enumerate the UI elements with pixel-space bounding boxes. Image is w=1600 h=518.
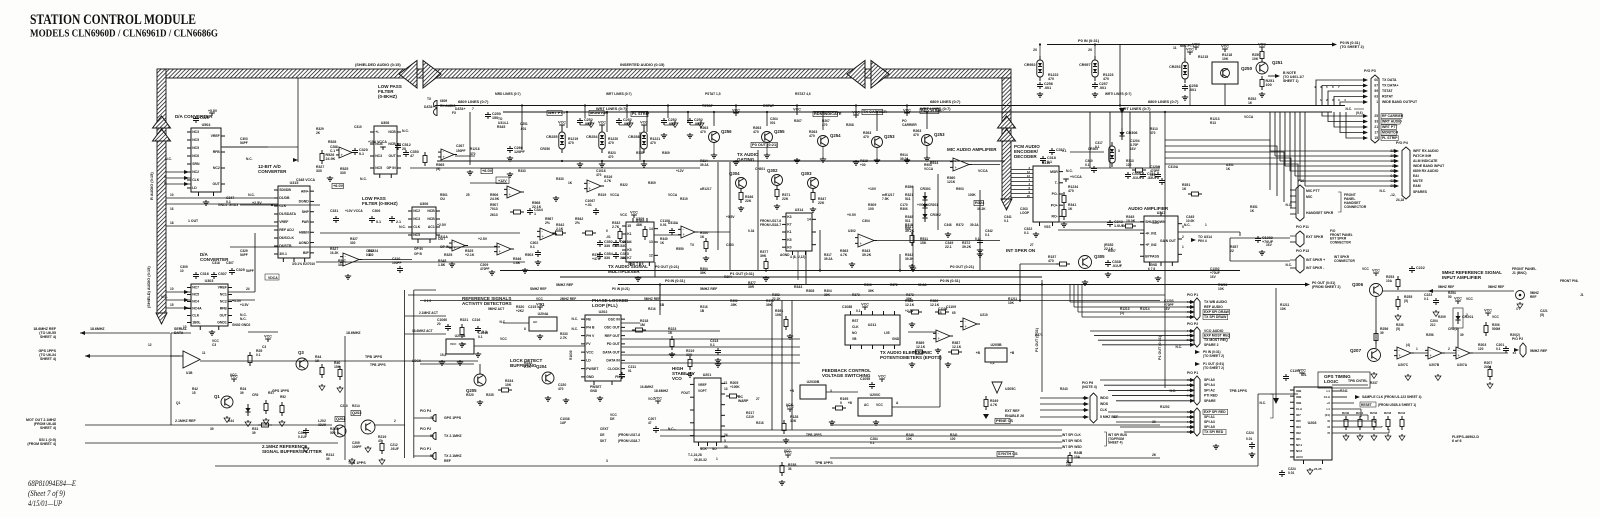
svg-text:ACTIVITY DETECTORS: ACTIVITY DETECTORS bbox=[462, 301, 512, 306]
svg-text:R903: R903 bbox=[956, 187, 964, 191]
svg-text:.001: .001 bbox=[520, 127, 526, 131]
svg-text:5MHZ REF: 5MHZ REF bbox=[556, 283, 573, 287]
svg-text:43: 43 bbox=[1187, 383, 1191, 387]
svg-text:SHEET 4): SHEET 4) bbox=[40, 335, 56, 339]
svg-text:SPI A2: SPI A2 bbox=[1204, 388, 1215, 392]
svg-text:470: 470 bbox=[1048, 77, 1054, 81]
svg-text:1K: 1K bbox=[1226, 167, 1231, 171]
svg-text:N.C.: N.C. bbox=[1184, 223, 1191, 227]
svg-text:SIGNAL BUFFER/SPLITTER: SIGNAL BUFFER/SPLITTER bbox=[262, 449, 323, 454]
svg-text:U208: U208 bbox=[1308, 421, 1317, 425]
svg-text:U200C: U200C bbox=[870, 393, 881, 397]
svg-text:44: 44 bbox=[1187, 420, 1191, 424]
svg-text:IOB: IOB bbox=[1296, 401, 1302, 405]
svg-text:R319: R319 bbox=[680, 197, 688, 201]
svg-text:Q202: Q202 bbox=[336, 416, 345, 421]
svg-text:42: 42 bbox=[1083, 408, 1087, 412]
svg-text:NCB: NCB bbox=[427, 209, 435, 213]
svg-text:10K: 10K bbox=[1280, 307, 1287, 311]
svg-text:39: 39 bbox=[1380, 331, 1384, 335]
svg-text:0.1: 0.1 bbox=[985, 233, 990, 237]
svg-text:3/0.1% E2/7010: 3/0.1% E2/7010 bbox=[292, 262, 315, 266]
svg-text:VCC: VCC bbox=[536, 297, 543, 301]
svg-text:16V: 16V bbox=[1210, 275, 1217, 279]
svg-text:DATA OUT: DATA OUT bbox=[603, 350, 621, 354]
svg-text:18.6MHZ ACT: 18.6MHZ ACT bbox=[412, 329, 433, 333]
svg-text:1K: 1K bbox=[660, 241, 665, 245]
svg-text:WRTI LINES (0:7): WRTI LINES (0:7) bbox=[1105, 92, 1131, 96]
svg-text:OU: OU bbox=[440, 197, 446, 201]
svg-text:66: 66 bbox=[1374, 78, 1378, 82]
svg-text:39.2A: 39.2A bbox=[918, 283, 927, 287]
svg-text:RSTAT 4,6: RSTAT 4,6 bbox=[795, 92, 811, 96]
svg-text:0.1: 0.1 bbox=[870, 441, 875, 445]
svg-text:IO5: IO5 bbox=[1296, 419, 1301, 423]
svg-text:39K: 39K bbox=[766, 303, 773, 307]
svg-text:NO: NO bbox=[852, 331, 857, 335]
svg-text:VCC: VCC bbox=[784, 451, 792, 455]
svg-text:(FROM U317-8: (FROM U317-8 bbox=[618, 433, 640, 437]
svg-text:2.7K: 2.7K bbox=[612, 225, 620, 229]
svg-text:(Sheet 7 of 9): (Sheet 7 of 9) bbox=[28, 489, 65, 498]
svg-text:39: 39 bbox=[1187, 305, 1191, 309]
svg-text:U202: U202 bbox=[599, 310, 608, 314]
svg-text:12.1K: 12.1K bbox=[905, 303, 915, 307]
svg-text:CR253: CR253 bbox=[1169, 65, 1180, 69]
svg-text:P/O P3: P/O P3 bbox=[1364, 69, 1376, 73]
svg-text:R319: R319 bbox=[598, 193, 606, 197]
svg-text:17: 17 bbox=[1374, 131, 1378, 135]
svg-text:BYPASS: BYPASS bbox=[1145, 254, 1160, 258]
svg-text:330: 330 bbox=[338, 263, 344, 267]
svg-text:U309: U309 bbox=[636, 217, 645, 221]
svg-text:NC2: NC2 bbox=[1296, 449, 1302, 453]
svg-text:C.1: C.1 bbox=[330, 149, 335, 153]
svg-text:P/O P1: P/O P1 bbox=[420, 447, 431, 451]
svg-text:0.1: 0.1 bbox=[1062, 149, 1067, 153]
svg-text:ACO: ACO bbox=[1296, 455, 1303, 459]
svg-text:R235: R235 bbox=[486, 393, 494, 397]
svg-text:(5): (5) bbox=[1396, 327, 1400, 331]
svg-text:VCC: VCC bbox=[1362, 267, 1369, 271]
svg-text:43: 43 bbox=[1187, 415, 1191, 419]
svg-text:24.9K: 24.9K bbox=[326, 157, 336, 161]
svg-text:SHEET 4): SHEET 4) bbox=[40, 357, 56, 361]
svg-text:CEXT: CEXT bbox=[600, 427, 609, 431]
svg-text:1.8K: 1.8K bbox=[438, 263, 446, 267]
svg-text:RST: RST bbox=[852, 319, 858, 323]
svg-text:PIN 4: PIN 4 bbox=[1198, 239, 1207, 243]
svg-text:NC4A: NC4A bbox=[192, 307, 202, 311]
svg-text:R1202: R1202 bbox=[1160, 405, 1170, 409]
svg-text:330: 330 bbox=[604, 244, 610, 248]
svg-text:4 (8, U,12): 4 (8, U,12) bbox=[790, 255, 805, 259]
svg-text:5: 5 bbox=[164, 175, 166, 179]
svg-text:Q256: Q256 bbox=[721, 129, 732, 134]
svg-text:REF: REF bbox=[1530, 295, 1536, 299]
svg-text:CARRIER: CARRIER bbox=[902, 123, 917, 127]
svg-text:VCC: VCC bbox=[640, 121, 648, 125]
svg-text:PO+: PO+ bbox=[1051, 203, 1058, 207]
svg-text:U210: U210 bbox=[980, 313, 988, 317]
svg-text:R216: R216 bbox=[756, 421, 764, 425]
svg-text:P0 IN (0:21): P0 IN (0:21) bbox=[612, 287, 630, 291]
svg-text:(FROM SHEET 4): (FROM SHEET 4) bbox=[27, 442, 56, 446]
svg-text:IOB: IOB bbox=[1296, 395, 1302, 399]
svg-text:TPB 1PPS: TPB 1PPS bbox=[815, 461, 833, 465]
svg-text:10K: 10K bbox=[1222, 57, 1229, 61]
svg-text:1UF: 1UF bbox=[560, 421, 566, 425]
svg-text:VCC: VCC bbox=[1484, 309, 1492, 313]
svg-text:VCO: VCO bbox=[672, 376, 682, 381]
svg-text:-01: -01 bbox=[606, 235, 611, 239]
svg-text:(TO SHEET 2): (TO SHEET 2) bbox=[1203, 366, 1224, 370]
svg-text:Q254: Q254 bbox=[830, 133, 841, 138]
svg-text:10.0K: 10.0K bbox=[1126, 219, 1136, 223]
svg-text:NC2: NC2 bbox=[413, 209, 420, 213]
svg-text:NC3: NC3 bbox=[375, 154, 382, 158]
svg-text:VREF: VREF bbox=[218, 286, 227, 290]
svg-text:PAR: PAR bbox=[302, 220, 310, 224]
svg-text:VCC: VCC bbox=[654, 397, 662, 401]
svg-text:R369: R369 bbox=[662, 151, 670, 155]
svg-text:SPARES: SPARES bbox=[1413, 190, 1428, 194]
svg-text:HANDSET SPKR: HANDSET SPKR bbox=[1306, 211, 1334, 215]
svg-text:P/O P1: P/O P1 bbox=[1187, 371, 1198, 375]
svg-text:L05: L05 bbox=[884, 331, 890, 335]
svg-text:1: 1 bbox=[1182, 245, 1184, 249]
svg-text:NC5: NC5 bbox=[413, 233, 420, 237]
svg-text:C304: C304 bbox=[862, 219, 870, 223]
svg-text:(1): (1) bbox=[1120, 311, 1124, 315]
svg-text:54PF: 54PF bbox=[240, 141, 248, 145]
svg-text:BIP: BIP bbox=[303, 251, 309, 255]
svg-text:500M: 500M bbox=[1492, 327, 1500, 331]
svg-text:39K: 39K bbox=[700, 271, 707, 275]
svg-text:GATING: GATING bbox=[737, 157, 755, 162]
svg-text:U317: U317 bbox=[1157, 211, 1166, 215]
svg-text:DATA+: DATA+ bbox=[455, 107, 466, 111]
svg-text:26: 26 bbox=[1152, 453, 1156, 457]
svg-text:2.1MHZ REF: 2.1MHZ REF bbox=[175, 419, 197, 423]
svg-text:39.2K: 39.2K bbox=[862, 253, 872, 257]
svg-text:(4): (4) bbox=[1406, 343, 1410, 347]
svg-text:EXP SPI RED: EXP SPI RED bbox=[1204, 410, 1226, 414]
svg-text:MULTIPLEXER: MULTIPLEXER bbox=[608, 269, 640, 274]
svg-text:AGND: AGND bbox=[780, 253, 790, 257]
svg-text:INT SPKR +: INT SPKR + bbox=[1306, 258, 1325, 262]
svg-text:470: 470 bbox=[1103, 77, 1109, 81]
svg-text:NC5: NC5 bbox=[375, 166, 382, 170]
svg-text:R373: R373 bbox=[852, 293, 860, 297]
svg-text:C318: C318 bbox=[212, 261, 220, 265]
svg-text:R1218: R1218 bbox=[470, 147, 480, 151]
svg-text:330: 330 bbox=[620, 244, 626, 248]
svg-text:PD OUT: PD OUT bbox=[607, 342, 621, 346]
svg-text:WRT PTT: WRT PTT bbox=[548, 110, 566, 115]
svg-text:C303: C303 bbox=[726, 243, 734, 247]
svg-text:2MHZ REF: 2MHZ REF bbox=[560, 297, 576, 301]
svg-text:10K: 10K bbox=[906, 437, 913, 441]
svg-text:TPB 1PPS: TPB 1PPS bbox=[370, 363, 386, 367]
svg-text:(FROM U318-7: (FROM U318-7 bbox=[618, 439, 640, 443]
svg-text:K7: K7 bbox=[787, 223, 791, 227]
svg-text:39K: 39K bbox=[824, 293, 831, 297]
svg-text:10K: 10K bbox=[790, 419, 797, 423]
svg-text:+2.5V: +2.5V bbox=[478, 237, 488, 241]
svg-text:VCC: VCC bbox=[620, 213, 628, 217]
svg-text:U306: U306 bbox=[420, 202, 429, 206]
svg-text:R237: R237 bbox=[1370, 381, 1378, 385]
svg-text:68P81094E84—E: 68P81094E84—E bbox=[28, 479, 76, 488]
svg-text:2.1K: 2.1K bbox=[556, 227, 564, 231]
svg-text:R333: R333 bbox=[518, 169, 526, 173]
svg-text:SO: SO bbox=[712, 447, 717, 451]
svg-text:C515: C515 bbox=[200, 116, 209, 120]
svg-text:0.01: 0.01 bbox=[1288, 471, 1294, 475]
svg-text:0.1: 0.1 bbox=[359, 152, 364, 156]
svg-text:3/0.1: 3/0.1 bbox=[279, 252, 287, 256]
svg-text:150: 150 bbox=[492, 116, 498, 120]
svg-text:470: 470 bbox=[558, 387, 564, 391]
svg-text:OSC IN: OSC IN bbox=[608, 317, 620, 321]
svg-text:C1088: C1088 bbox=[842, 305, 852, 309]
svg-text:1B0L: 1B0L bbox=[192, 321, 200, 325]
svg-text:SPI A1: SPI A1 bbox=[1204, 415, 1215, 419]
svg-text:36: 36 bbox=[788, 467, 792, 471]
svg-text:EXP SPI DRAW: EXP SPI DRAW bbox=[1204, 310, 1230, 314]
svg-text:VCC: VCC bbox=[450, 342, 457, 346]
svg-text:16: 16 bbox=[170, 207, 174, 211]
svg-text:511: 511 bbox=[905, 197, 911, 201]
svg-text:VCC: VCC bbox=[586, 350, 594, 354]
svg-text:U303: U303 bbox=[205, 279, 214, 283]
svg-text:64: 64 bbox=[1513, 351, 1517, 355]
svg-text:VCC: VCC bbox=[1454, 297, 1462, 301]
svg-text:C310A: C310A bbox=[1168, 165, 1179, 169]
svg-text:CR957: CR957 bbox=[1079, 63, 1090, 67]
svg-text:R345: R345 bbox=[497, 125, 505, 129]
svg-text:470: 470 bbox=[913, 133, 919, 137]
svg-text:0.1: 0.1 bbox=[376, 220, 381, 224]
svg-text:7: 7 bbox=[472, 107, 474, 111]
svg-text:C346: C346 bbox=[944, 223, 952, 227]
svg-text:64: 64 bbox=[1390, 174, 1394, 178]
svg-text:1M: 1M bbox=[640, 323, 645, 327]
svg-text:I0: I0 bbox=[1327, 419, 1330, 423]
svg-text:SPI A4: SPI A4 bbox=[1204, 383, 1215, 387]
svg-text:10: 10 bbox=[180, 269, 184, 273]
svg-text:TX SPI RED: TX SPI RED bbox=[1204, 430, 1224, 434]
svg-text:RF CARRIER: RF CARRIER bbox=[1382, 114, 1404, 118]
svg-text:WDO: WDO bbox=[1100, 396, 1109, 400]
svg-text:25: 25 bbox=[1374, 114, 1378, 118]
svg-text:22J: 22J bbox=[1430, 323, 1436, 327]
svg-text:SYNTH CS: SYNTH CS bbox=[998, 451, 1018, 456]
svg-text:IO2: IO2 bbox=[1296, 431, 1301, 435]
svg-text:1: 1 bbox=[1376, 100, 1378, 104]
svg-text:MSR: MSR bbox=[1050, 170, 1058, 174]
svg-text:11: 11 bbox=[202, 351, 206, 355]
svg-text:R52: R52 bbox=[280, 395, 286, 399]
svg-text:VCC: VCC bbox=[1372, 269, 1380, 273]
svg-text:VCCA: VCCA bbox=[668, 193, 678, 197]
svg-text:3: 3 bbox=[606, 459, 608, 463]
svg-text:V306: V306 bbox=[612, 244, 620, 248]
svg-text:+2: +2 bbox=[1327, 401, 1331, 405]
svg-text:0: 0 bbox=[840, 401, 842, 405]
svg-text:C224: C224 bbox=[1246, 431, 1254, 435]
svg-text:1K: 1K bbox=[1068, 207, 1073, 211]
svg-text:0.1: 0.1 bbox=[366, 253, 371, 257]
svg-text:01: 01 bbox=[628, 369, 632, 373]
svg-text:(5): (5) bbox=[1404, 299, 1408, 303]
svg-text:C216: C216 bbox=[472, 318, 480, 322]
svg-text:(FROM U51B-6 SHEET 1): (FROM U51B-6 SHEET 1) bbox=[1378, 403, 1416, 407]
svg-text:6 of 6: 6 of 6 bbox=[1452, 439, 1462, 443]
svg-text:.001: .001 bbox=[1044, 86, 1051, 90]
svg-text:D6/STB: D6/STB bbox=[279, 244, 292, 248]
svg-text:EXP MOST REQ: EXP MOST REQ bbox=[1204, 334, 1231, 338]
svg-text:39K: 39K bbox=[760, 254, 767, 258]
svg-text:(NOTE 4): (NOTE 4) bbox=[1082, 385, 1097, 389]
svg-text:LOGIC: LOGIC bbox=[1324, 379, 1339, 384]
svg-text:15: 15 bbox=[170, 303, 174, 307]
svg-text:121K: 121K bbox=[947, 180, 956, 184]
svg-text:(TO SHEET 2): (TO SHEET 2) bbox=[1340, 45, 1364, 49]
svg-text:12.1K: 12.1K bbox=[916, 345, 926, 349]
svg-text:TX WB AUDIO: TX WB AUDIO bbox=[1204, 300, 1227, 304]
svg-text:P/O P4: P/O P4 bbox=[1396, 141, 1409, 145]
svg-text:22K: 22K bbox=[745, 199, 752, 203]
svg-text:Q306: Q306 bbox=[1352, 282, 1364, 287]
svg-text:39: 39 bbox=[252, 431, 256, 435]
svg-text:U1B: U1B bbox=[186, 371, 193, 375]
svg-text:+30: +30 bbox=[860, 163, 866, 167]
svg-text:C215: C215 bbox=[528, 305, 536, 309]
svg-text:+10V VCCA: +10V VCCA bbox=[345, 209, 363, 213]
svg-text:PWSET: PWSET bbox=[586, 367, 599, 371]
svg-text:K1: K1 bbox=[787, 230, 791, 234]
svg-text:P1 OUT (0:31): P1 OUT (0:31) bbox=[1158, 335, 1162, 360]
svg-text:PATCH INH: PATCH INH bbox=[1413, 154, 1432, 158]
svg-text:CH301: CH301 bbox=[755, 167, 765, 171]
svg-text:RFB: RFB bbox=[220, 307, 228, 311]
svg-text:MIC AUDIO AMPLIFIER: MIC AUDIO AMPLIFIER bbox=[947, 147, 997, 152]
svg-text:ENABLE 26: ENABLE 26 bbox=[1005, 414, 1024, 418]
svg-text:N.C.: N.C. bbox=[240, 317, 247, 321]
svg-text:47: 47 bbox=[648, 421, 652, 425]
svg-text:R333: R333 bbox=[556, 177, 564, 181]
svg-text:RSTAT: RSTAT bbox=[1382, 95, 1394, 99]
svg-text:PL STRIP: PL STRIP bbox=[1382, 136, 1398, 140]
svg-text:+6.0V: +6.0V bbox=[482, 168, 493, 173]
svg-text:C331: C331 bbox=[330, 209, 338, 213]
svg-text:R242: R242 bbox=[1370, 411, 1378, 415]
svg-text:MIC PTT: MIC PTT bbox=[1306, 189, 1321, 193]
svg-text:14: 14 bbox=[807, 218, 811, 222]
svg-text:+F_IN2: +F_IN2 bbox=[1145, 243, 1156, 247]
svg-text:CLK: CLK bbox=[413, 225, 421, 229]
svg-text:OUT: OUT bbox=[220, 314, 228, 318]
svg-text:INT SPI WDS: INT SPI WDS bbox=[1062, 439, 1083, 443]
svg-text:N.C.: N.C. bbox=[360, 177, 367, 181]
svg-text:2: 2 bbox=[522, 309, 524, 313]
svg-text:U207C: U207C bbox=[1398, 363, 1409, 367]
svg-text:R306: R306 bbox=[900, 207, 908, 211]
svg-text:7.5K: 7.5K bbox=[882, 197, 889, 201]
svg-text:INT SPKR ON: INT SPKR ON bbox=[1006, 248, 1035, 253]
svg-text:VCCA: VCCA bbox=[924, 167, 934, 171]
svg-text:GPS 1PPS: GPS 1PPS bbox=[444, 416, 462, 420]
svg-text:39.2K: 39.2K bbox=[962, 245, 972, 249]
svg-text:SPARE: SPARE bbox=[1204, 399, 1216, 403]
svg-text:MRD LINES (0:7): MRD LINES (0:7) bbox=[495, 92, 521, 96]
svg-text:K0: K0 bbox=[787, 245, 791, 249]
svg-text:FOUT: FOUT bbox=[681, 391, 690, 395]
svg-text:CR255: CR255 bbox=[546, 135, 557, 139]
svg-text:100: 100 bbox=[1266, 83, 1272, 87]
svg-text:.39K: .39K bbox=[730, 303, 737, 307]
svg-text:N.C.: N.C. bbox=[248, 193, 255, 197]
svg-text:470: 470 bbox=[608, 141, 614, 145]
svg-text:U314: U314 bbox=[795, 208, 804, 212]
svg-text:T-1,24,28: T-1,24,28 bbox=[688, 453, 702, 457]
svg-text:Q253: Q253 bbox=[934, 132, 945, 137]
svg-text:VCC: VCC bbox=[852, 111, 860, 115]
svg-text:R241: R241 bbox=[1340, 389, 1348, 393]
svg-text:CR258: CR258 bbox=[628, 135, 639, 139]
svg-text:SDI/DB: SDI/DB bbox=[279, 188, 291, 192]
svg-text:P/O P1: P/O P1 bbox=[1187, 293, 1198, 297]
svg-text:WIDE BAND INPUT: WIDE BAND INPUT bbox=[1413, 164, 1445, 168]
svg-text:0.1: 0.1 bbox=[478, 335, 483, 339]
svg-text:10K: 10K bbox=[1008, 301, 1015, 305]
svg-text:18: 18 bbox=[1390, 159, 1394, 163]
svg-text:22K: 22K bbox=[782, 197, 789, 201]
svg-text:TX DATA+: TX DATA+ bbox=[1382, 84, 1398, 88]
svg-text:100K: 100K bbox=[968, 193, 976, 197]
svg-text:+12V: +12V bbox=[498, 179, 507, 183]
svg-text:E&I: E&I bbox=[1413, 174, 1419, 178]
svg-text:VREF: VREF bbox=[698, 383, 707, 387]
svg-text:Q1: Q1 bbox=[176, 401, 181, 405]
svg-text:N.C.: N.C. bbox=[399, 225, 406, 229]
svg-text:LOOP: LOOP bbox=[1020, 211, 1030, 215]
svg-text:330: 330 bbox=[340, 171, 346, 175]
svg-text:EXT SPKR: EXT SPKR bbox=[1306, 235, 1324, 239]
svg-text:50: 50 bbox=[1448, 295, 1452, 299]
svg-text:0.1: 0.1 bbox=[1047, 160, 1052, 164]
svg-text:39: 39 bbox=[240, 391, 244, 395]
svg-text:470: 470 bbox=[700, 130, 706, 134]
svg-text:Q204: Q204 bbox=[536, 364, 547, 369]
svg-text:+6.0V: +6.0V bbox=[333, 183, 344, 188]
svg-text:Q1: Q1 bbox=[214, 394, 220, 399]
svg-text:C316: C316 bbox=[200, 272, 209, 276]
svg-text:470: 470 bbox=[470, 152, 476, 156]
svg-text:39: 39 bbox=[210, 427, 214, 431]
svg-text:R372: R372 bbox=[890, 283, 898, 287]
svg-text:WRT PTT: WRT PTT bbox=[1382, 125, 1398, 129]
svg-text:R550: R550 bbox=[676, 247, 684, 251]
svg-text:11: 11 bbox=[1173, 46, 1177, 50]
svg-text:TSTAT: TSTAT bbox=[702, 104, 714, 108]
svg-text:VCC: VCC bbox=[1492, 315, 1499, 319]
svg-text:VCC: VCC bbox=[876, 403, 883, 407]
svg-text:TPB 1PPS: TPB 1PPS bbox=[365, 355, 383, 359]
svg-text:1,2: 1,2 bbox=[990, 361, 995, 365]
